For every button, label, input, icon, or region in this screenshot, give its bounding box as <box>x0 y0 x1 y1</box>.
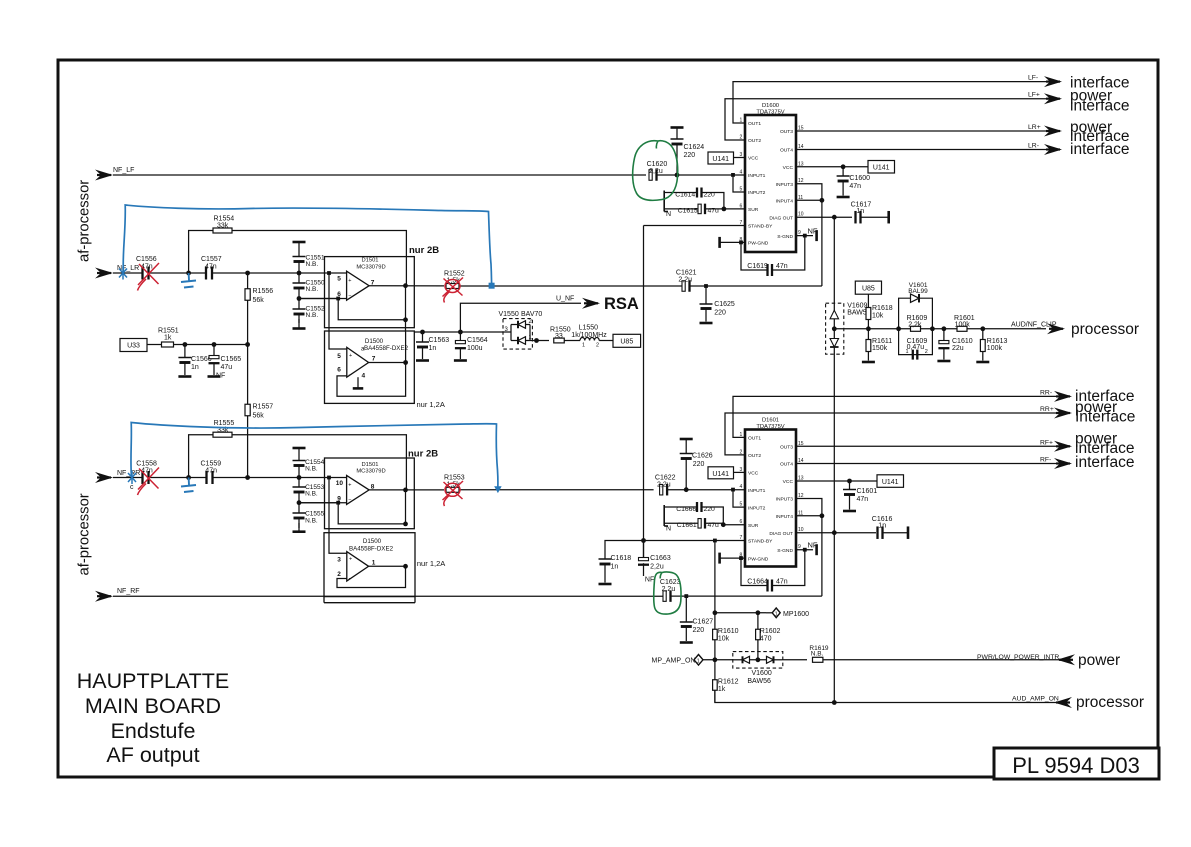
resistor R1556 56k <box>247 273 249 345</box>
IC D1601 TDA7375V box <box>745 430 796 567</box>
svg-text:N.B.: N.B. <box>306 261 319 268</box>
capacitor C1666 220 <box>664 506 697 508</box>
wire V1600 center to R1602 <box>756 657 761 662</box>
svg-text:C1666: C1666 <box>676 506 696 513</box>
input arrow NF_LR <box>95 268 113 279</box>
svg-text:47n: 47n <box>205 264 217 271</box>
svg-text:2,2u: 2,2u <box>678 277 692 284</box>
wire C1563 line from box <box>414 331 506 333</box>
input arrow PWR/LOW_POWER_INTR power <box>1057 654 1075 665</box>
svg-text:LR+: LR+ <box>1028 124 1041 131</box>
capacitor C1552 N.B. <box>298 299 300 310</box>
trunk stand-by vertical <box>643 226 645 559</box>
wire C1559 to box lower <box>213 477 325 479</box>
node junction feedback lower <box>403 522 408 527</box>
svg-text:220: 220 <box>693 627 705 634</box>
blue feedback annotation upper <box>123 205 491 285</box>
svg-text:C1664: C1664 <box>747 579 768 586</box>
node junction mid column <box>245 342 250 347</box>
diode pair V1600 BAW56 dashed box <box>733 652 783 669</box>
resistor R1618 10k <box>866 308 871 320</box>
svg-text:+: + <box>349 353 352 359</box>
wire S-GND pin9 stub NF <box>796 235 813 237</box>
feedback loop D1500 lower <box>337 566 406 587</box>
capacitor C1664 47n <box>768 580 773 592</box>
svg-text:C1601: C1601 <box>857 488 878 495</box>
resistor R1554 33k <box>213 228 232 233</box>
svg-text:1n: 1n <box>191 364 199 371</box>
capacitor C1610 22u <box>943 329 945 341</box>
output arrow RSA <box>582 298 600 309</box>
output arrow processor clip <box>1047 323 1065 334</box>
svg-text:10k: 10k <box>718 636 730 643</box>
resistor R1551 1k <box>162 342 174 347</box>
capacitor C1615 47u <box>664 208 698 210</box>
svg-text:L1550: L1550 <box>579 325 599 332</box>
svg-text:R1612: R1612 <box>718 678 739 685</box>
blue ground mark upper <box>181 273 196 288</box>
svg-text:C1618: C1618 <box>611 555 632 562</box>
svg-text:NF: NF <box>216 373 225 380</box>
svg-text:C1600: C1600 <box>849 175 870 182</box>
node junction MP line left <box>713 610 718 615</box>
wire OUT2 to RR+ net <box>725 413 1057 455</box>
svg-text:47n: 47n <box>776 263 788 270</box>
wire OUT4 to RF- net <box>796 463 1057 465</box>
svg-text:5: 5 <box>337 353 341 360</box>
svg-text:MP_AMP_ON: MP_AMP_ON <box>652 657 696 664</box>
svg-text:R1602: R1602 <box>760 628 781 635</box>
node square minus upper <box>336 297 340 301</box>
blue star NF_RR <box>128 471 136 484</box>
capacitor stack C1554 N.B. <box>293 447 306 450</box>
wire OUT2 to LF+ net <box>725 99 1046 140</box>
svg-text:MAIN BOARD: MAIN BOARD <box>85 694 221 718</box>
svg-text:LR-: LR- <box>1028 143 1039 150</box>
node junction C1626 <box>684 487 689 492</box>
box U141 upper right <box>868 161 895 174</box>
test point MP1600 <box>772 608 780 618</box>
node junction C1625 <box>704 284 708 288</box>
ground stub PW-GND lower <box>718 553 721 564</box>
loop V1601 R1609 C1609 <box>899 298 933 329</box>
resistor R1613 100k <box>982 329 984 340</box>
capacitor C1600 47n <box>842 167 844 176</box>
svg-text:2,2u: 2,2u <box>657 482 671 489</box>
svg-text:OUT4: OUT4 <box>780 148 793 154</box>
capacitor C1558 <box>143 471 149 484</box>
wire NF_LF to C1620 <box>113 174 646 176</box>
node junction output lower <box>403 488 408 493</box>
diode V1550 internals <box>506 331 511 333</box>
svg-text:R1611: R1611 <box>872 338 892 345</box>
svg-text:100k: 100k <box>987 345 1003 352</box>
svg-text:INPUT2: INPUT2 <box>748 190 766 196</box>
wire to SUR pin6 <box>724 208 745 210</box>
node junction R1557 bottom <box>245 475 250 480</box>
capacitor C1601 47n <box>849 481 851 490</box>
svg-text:af-processor: af-processor <box>77 493 93 575</box>
svg-text:C1622: C1622 <box>655 475 676 482</box>
svg-text:af-processor: af-processor <box>77 180 93 262</box>
wire C1622 to INPUT1 lower <box>667 489 745 491</box>
svg-text:47n: 47n <box>205 467 217 474</box>
node junction at blue ground <box>186 271 191 276</box>
wire U33 to R1551 <box>147 344 162 346</box>
diode V1600 right <box>767 656 774 663</box>
svg-text:INPUT1: INPUT1 <box>748 488 766 494</box>
capacitor C1557 <box>206 267 212 280</box>
node junction R1602 top <box>756 610 761 615</box>
node junction C1563 <box>420 330 425 335</box>
diode V1609 lower <box>830 339 839 348</box>
svg-text:R1610: R1610 <box>718 628 739 635</box>
svg-text:nur 1,2A: nur 1,2A <box>417 400 445 409</box>
trunk diag out vertical <box>833 217 835 702</box>
feedback wire R1554 loop <box>189 231 407 286</box>
svg-text:INPUT1: INPUT1 <box>748 173 766 179</box>
node junction D1500 output upper <box>403 360 408 365</box>
wire C1556 to C1557 <box>149 272 207 274</box>
svg-text:RF-: RF- <box>1040 457 1051 464</box>
ground pin 4 D1500 upper <box>357 377 359 388</box>
rail bar N upper <box>663 191 665 212</box>
svg-text:C1663: C1663 <box>650 555 671 562</box>
svg-text:2,2u: 2,2u <box>662 586 676 593</box>
svg-text:22u: 22u <box>952 345 964 352</box>
wire plus to op-amp lower <box>325 477 347 479</box>
svg-text:INPUT3: INPUT3 <box>776 182 794 188</box>
wire MP_AMP_ON line <box>703 659 733 661</box>
svg-text:C1627: C1627 <box>693 619 714 626</box>
capacitor C1614 220 <box>664 192 697 194</box>
wire NF_LR input segment <box>113 272 142 274</box>
wire R1619 to PWR arrow <box>823 659 1059 661</box>
svg-text:interface: interface <box>1070 141 1129 158</box>
feedback loop D1501 lower path <box>338 299 405 320</box>
node square plus input upper <box>327 271 331 275</box>
svg-text:RR+: RR+ <box>1040 406 1054 413</box>
capacitor C1559 <box>207 471 213 484</box>
svg-text:1n: 1n <box>856 208 864 215</box>
svg-text:VCC: VCC <box>748 471 759 477</box>
svg-text:c: c <box>130 484 134 491</box>
capacitor C1663 2.2u NF <box>643 541 645 558</box>
svg-text:PW-GND: PW-GND <box>748 241 769 247</box>
node junction SUR lower <box>721 522 726 527</box>
node junction loop left <box>896 326 901 331</box>
svg-text:470: 470 <box>760 636 772 643</box>
svg-text:BA4558F-DXE2: BA4558F-DXE2 <box>349 546 394 553</box>
node junction INPUT4 lower <box>820 513 825 518</box>
wire OUT1 to RR- net <box>733 396 1057 437</box>
svg-text:1: 1 <box>906 349 909 355</box>
wire VCC13 to U141 lower right <box>796 480 877 482</box>
diode V1600 left <box>733 659 743 661</box>
resistor R1550 33 <box>554 338 565 343</box>
svg-text:nur 2B: nur 2B <box>408 449 438 460</box>
capacitor C1661 47u <box>664 522 698 524</box>
svg-text:V1550: V1550 <box>499 311 519 318</box>
svg-text:RR-: RR- <box>1040 389 1052 396</box>
wire U141 to VCC pin3 <box>734 157 746 159</box>
wire output node down to C1563 line <box>405 286 407 332</box>
svg-text:OUT1: OUT1 <box>748 121 761 127</box>
node junction output upper <box>403 283 408 288</box>
svg-text:56k: 56k <box>253 297 265 304</box>
capacitor C1556 <box>143 267 149 280</box>
svg-text:1: 1 <box>582 343 585 349</box>
wire D1500 lower output <box>369 565 406 567</box>
wire R1550 to L1550 <box>564 340 580 342</box>
svg-text:N.B.: N.B. <box>306 312 319 319</box>
svg-text:VCC: VCC <box>748 156 759 162</box>
svg-text:TDA7375V: TDA7375V <box>756 110 784 116</box>
svg-text:D1500: D1500 <box>363 538 382 545</box>
svg-text:100u: 100u <box>467 345 483 352</box>
wire op-amp output upper <box>369 285 444 287</box>
input arrow NF_RF <box>95 591 113 602</box>
capacitor C1609 0.47u <box>913 350 918 360</box>
node junction R1556 top <box>245 271 250 276</box>
node junction lower blue ground <box>186 475 191 480</box>
node square stand-by R1610 column <box>713 539 717 543</box>
svg-text:1: 1 <box>775 612 778 618</box>
input arrow NF_LF <box>95 170 113 181</box>
resistor R1601 100k <box>957 326 967 331</box>
wire INPUT3 INPUT4 tie upper <box>796 184 822 286</box>
svg-text:150k: 150k <box>872 345 888 352</box>
capacitor C1616 1n <box>878 526 883 539</box>
node square C1627 tap <box>684 594 688 598</box>
node junction C1565 <box>212 342 217 347</box>
svg-text:C1564: C1564 <box>467 337 488 344</box>
resistor R1553 1.5k crossed out <box>446 487 459 492</box>
resistor R1555 33k <box>213 432 232 437</box>
svg-text:AF output: AF output <box>106 743 199 767</box>
svg-text:R1554: R1554 <box>214 216 235 223</box>
svg-text:V1600: V1600 <box>752 670 772 677</box>
svg-text:2: 2 <box>596 343 599 349</box>
node junction C1624 <box>675 173 680 178</box>
wire C1664 to S-GND riser lower <box>772 550 805 586</box>
node junction AUD line <box>832 700 837 705</box>
svg-text:1: 1 <box>372 560 376 567</box>
wire STAND-BY pin7 to trunk <box>644 225 746 227</box>
diode V1601 BAL99 <box>911 294 920 303</box>
svg-text:RF+: RF+ <box>1040 439 1053 446</box>
svg-text:C1626: C1626 <box>692 453 713 460</box>
svg-text:OUT1: OUT1 <box>748 436 761 442</box>
wire MP1600 line <box>715 612 766 614</box>
wire R1552 to C1621 <box>459 285 682 287</box>
node junction cap stack lower <box>297 475 302 480</box>
svg-text:C1624: C1624 <box>684 144 705 151</box>
input arrow AUD_AMP_ON processor <box>1054 697 1072 708</box>
wire U_NF riser <box>460 303 581 332</box>
diode V1550 BAV70 dashed box <box>503 319 532 350</box>
node junction loop right <box>930 326 935 331</box>
capacitor C1564 100u <box>459 332 461 341</box>
svg-text:C1614: C1614 <box>675 192 695 199</box>
svg-text:N.B.: N.B. <box>305 517 318 524</box>
IC D1600 TDA7375V box <box>745 115 796 252</box>
svg-text:47u: 47u <box>221 364 233 371</box>
red cross R1552 <box>443 278 464 303</box>
output arrow RF- interface <box>1054 458 1072 469</box>
svg-text:RSA: RSA <box>604 295 639 313</box>
svg-text:220: 220 <box>693 461 705 468</box>
svg-text:C1563: C1563 <box>429 337 450 344</box>
svg-text:D1501: D1501 <box>361 258 378 264</box>
node junction INPUT4 upper <box>820 198 825 203</box>
svg-text:3: 3 <box>337 557 341 564</box>
svg-text:NF: NF <box>645 577 654 584</box>
svg-text:−: − <box>349 576 352 582</box>
capacitor C1620 2.2u <box>649 170 652 181</box>
svg-text:OUT3: OUT3 <box>780 445 793 451</box>
svg-text:N.B.: N.B. <box>811 651 824 658</box>
node junction DIAG OUT upper <box>832 215 837 220</box>
capacitor C1619 47n <box>768 264 773 276</box>
node junction feedback upper <box>403 317 408 322</box>
svg-text:C1610: C1610 <box>952 338 973 345</box>
capacitor C1624 220 <box>671 126 684 129</box>
node junction C1564 U_NF <box>458 330 463 335</box>
box U33 <box>120 339 147 352</box>
svg-text:INPUT2: INPUT2 <box>748 505 766 511</box>
svg-text:2,2u: 2,2u <box>650 564 664 571</box>
capacitor C1626 220 <box>680 438 693 441</box>
svg-text:N.B.: N.B. <box>305 491 318 498</box>
svg-text:6: 6 <box>337 367 341 374</box>
wire NF_RF long run <box>113 595 663 597</box>
wire AUD_AMP_ON line <box>715 690 1056 702</box>
svg-text:220: 220 <box>684 152 696 159</box>
wire to SUR pin6 lower <box>723 524 745 526</box>
svg-text:BAL99: BAL99 <box>908 288 928 295</box>
outer bottom line lower box <box>324 602 415 604</box>
node junction DIAG OUT lower <box>832 530 837 535</box>
blue ground mark lower <box>181 478 196 493</box>
svg-text:processor: processor <box>1071 321 1139 338</box>
svg-text:processor: processor <box>1076 694 1144 711</box>
svg-text:47n: 47n <box>857 496 869 503</box>
node junction C1610 <box>942 326 947 331</box>
green circle C1620 <box>633 141 678 201</box>
output arrow LR- interface <box>1044 144 1062 155</box>
node junction C1601 <box>847 479 852 484</box>
capacitor C1625 220 <box>705 286 707 304</box>
clip net wire <box>834 328 1046 330</box>
svg-text:C1565: C1565 <box>221 356 242 363</box>
svg-text:R1556: R1556 <box>253 288 274 295</box>
wire DIAG OUT pin10 lower <box>796 532 876 534</box>
svg-text:47n: 47n <box>849 183 861 190</box>
box U85 right <box>855 281 881 294</box>
node junction C1600 <box>841 164 846 169</box>
green circle C1623 <box>654 572 681 614</box>
feedback wire R1555 loop <box>189 435 407 490</box>
svg-text:U33: U33 <box>127 343 140 350</box>
svg-text:+: + <box>349 557 352 563</box>
svg-text:STAND-BY: STAND-BY <box>748 539 773 545</box>
wire U141 to VCC pin3 lower <box>734 471 746 473</box>
trunk stand-by to MP region <box>714 541 716 703</box>
svg-text:nur 1,2A: nur 1,2A <box>417 559 445 568</box>
svg-text:N: N <box>666 526 671 533</box>
capacitor C1623 2.2u <box>663 591 666 602</box>
wire C1620 to INPUT1 <box>657 174 746 176</box>
wire DIAG OUT pin10 <box>796 216 852 218</box>
svg-text:PW-GND: PW-GND <box>748 556 769 562</box>
svg-text:10k: 10k <box>872 313 884 320</box>
wire plus input D1500 lower <box>329 478 347 554</box>
wire minus to op-amp upper <box>299 298 347 300</box>
svg-text:33: 33 <box>555 333 563 340</box>
svg-text:MC33079D: MC33079D <box>356 264 385 270</box>
svg-text:U85: U85 <box>620 339 633 346</box>
node junction stand-by trunk <box>641 538 646 543</box>
wire INPUT1 to INPUT2 tie lower <box>733 490 745 508</box>
wire OUT1 to LF- net <box>733 82 1046 123</box>
wire C1558 to C1559 <box>149 477 207 479</box>
wire R1551 to R1556 column <box>174 344 248 346</box>
svg-text:BAV70: BAV70 <box>521 311 542 318</box>
wire INPUT3 INPUT4 tie lower <box>796 499 822 597</box>
svg-text:OUT2: OUT2 <box>748 453 761 459</box>
svg-text:0,47u: 0,47u <box>907 344 925 351</box>
resistor R1611 150k <box>867 329 869 340</box>
wire minus input upper <box>299 298 337 300</box>
wire minus to op-amp lower <box>299 502 347 504</box>
output arrow RF+ power interface <box>1054 441 1072 452</box>
svg-text:U141: U141 <box>712 156 729 163</box>
node square minus lower <box>336 501 340 505</box>
capacitor C1627 220 <box>685 596 687 622</box>
red cross R1553 <box>443 481 464 506</box>
svg-text:220: 220 <box>714 310 726 317</box>
svg-text:MC33079D: MC33079D <box>356 469 385 475</box>
wire minus input lower <box>299 502 337 504</box>
wire OUT3 to LR+ net <box>796 130 1046 132</box>
svg-text:1: 1 <box>697 658 700 664</box>
output arrow RR- interface <box>1054 391 1072 402</box>
svg-text:7: 7 <box>372 356 376 363</box>
output arrow LR+ power interface <box>1044 126 1062 137</box>
output arrow LF- interface <box>1044 76 1062 87</box>
svg-text:OUT3: OUT3 <box>780 129 793 135</box>
svg-text:LF-: LF- <box>1028 75 1038 82</box>
svg-text:OUT4: OUT4 <box>780 462 793 468</box>
svg-text:1k: 1k <box>164 335 172 342</box>
svg-text:+: + <box>348 482 351 488</box>
svg-text:PWR/LOW_POWER_INTR: PWR/LOW_POWER_INTR <box>977 654 1059 661</box>
svg-text:N: N <box>666 211 671 218</box>
svg-text:C1556: C1556 <box>136 256 157 263</box>
wire VCC13 to U141 right <box>796 166 868 168</box>
feedback loop D1501 lower <box>338 503 405 524</box>
svg-text:5: 5 <box>337 276 341 283</box>
svg-text:D1601: D1601 <box>762 418 779 424</box>
svg-text:C1619: C1619 <box>747 263 768 270</box>
svg-text:HAUPTPLATTE: HAUPTPLATTE <box>77 669 230 693</box>
red cross C1556 <box>138 263 160 291</box>
svg-text:SUR: SUR <box>748 207 759 213</box>
node junction SUR <box>722 207 727 212</box>
wire NF_RF to riser <box>671 595 822 597</box>
svg-text:DIAG OUT: DIAG OUT <box>769 215 793 221</box>
